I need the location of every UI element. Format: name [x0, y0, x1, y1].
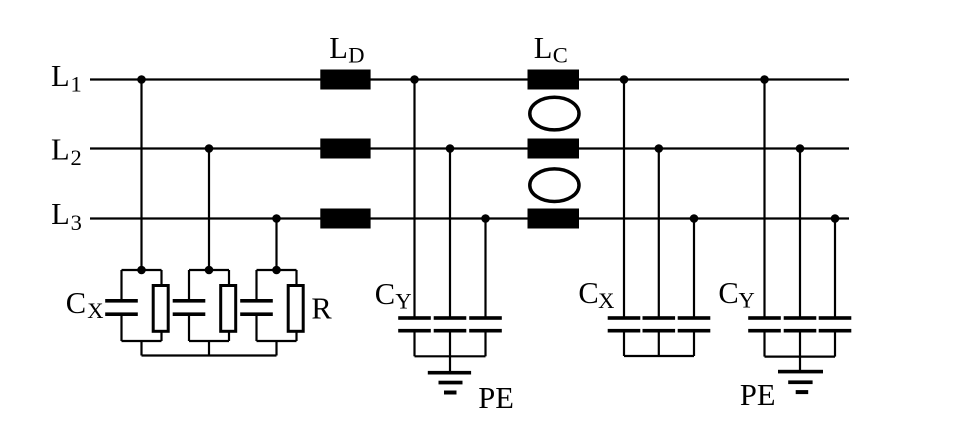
junction dot L1/CY1	[410, 75, 419, 84]
ground PE (right)	[778, 357, 823, 395]
svg-text:2: 2	[71, 145, 82, 170]
resistor R (phase L1 cell)	[153, 286, 168, 332]
svg-text:1: 1	[71, 71, 82, 96]
svg-text:X: X	[598, 288, 614, 313]
wire from L2 down to CX1 cell	[208, 149, 210, 271]
svg-text:Y: Y	[395, 289, 411, 314]
label CY (right block)	[718, 276, 754, 313]
junction dot L1/CX2	[620, 75, 629, 84]
junction dot L3/CY1	[481, 214, 490, 223]
capacitor CX1a with parallel resistor cell (phase L1)	[105, 270, 161, 356]
ground PE (middle)	[428, 356, 471, 394]
junction dot L2/CX2	[655, 144, 664, 153]
svg-text:PE: PE	[478, 381, 514, 415]
capacitor CY2 phase L3	[819, 316, 852, 356]
inductor LC winding on L2	[528, 139, 580, 159]
resistor R (phase L2 cell)	[221, 286, 236, 332]
junction dot CX1 cell top L3	[272, 266, 281, 275]
wire from L1 down to CY1	[413, 80, 415, 317]
wire from L3 down to CX1 cell	[275, 219, 277, 271]
junction dot L2/CX1	[205, 144, 214, 153]
svg-text:R: R	[311, 292, 332, 326]
inductor LC winding on L1	[528, 70, 580, 90]
junction dot L2/CY1	[446, 144, 455, 153]
wire star-point bus of CX1 block	[142, 354, 277, 356]
inductor LD winding on L3	[320, 209, 370, 229]
svg-text:PE: PE	[740, 378, 776, 412]
svg-text:C: C	[553, 43, 568, 68]
wire from L3 down to CX2	[693, 219, 695, 317]
wire from L3 down to CY1	[484, 219, 486, 317]
svg-text:Y: Y	[739, 287, 755, 312]
svg-text:X: X	[87, 298, 103, 323]
wire from L2 down to CX2	[658, 149, 660, 317]
label LD	[329, 31, 364, 68]
svg-text:D: D	[348, 42, 364, 67]
capacitor CX2 phase L2	[643, 316, 676, 356]
svg-text:L: L	[51, 133, 70, 167]
label CY (middle block)	[375, 277, 412, 314]
wire phase line L3	[90, 217, 849, 219]
capacitor CX1b with parallel resistor cell (phase L2)	[173, 270, 229, 356]
resistor R (phase L3 cell)	[288, 286, 303, 332]
capacitor CX2 phase L1	[608, 316, 641, 356]
inductor LC winding on L3	[528, 209, 580, 229]
wire from L2 down to CY2	[799, 149, 801, 317]
svg-text:C: C	[578, 276, 598, 310]
junction dot CX1 cell top L1	[137, 266, 146, 275]
capacitor CX1c with parallel resistor cell (phase L3)	[240, 270, 296, 356]
svg-text:L: L	[534, 31, 553, 65]
junction dot L1/CY2	[760, 75, 769, 84]
wire from L1 down to CX2	[623, 80, 625, 317]
capacitor CY1 phase L2	[434, 316, 467, 356]
wire from L2 down to CY1	[449, 149, 451, 317]
wire from L1 down to CY2	[763, 80, 765, 317]
wire from L3 down to CY2	[834, 219, 836, 317]
capacitor CY1 phase L3	[469, 316, 502, 356]
svg-text:L: L	[329, 31, 348, 65]
wire star-point bus of CX2 block	[624, 355, 694, 357]
svg-text:L: L	[51, 59, 70, 93]
label L1	[51, 59, 82, 97]
capacitor CX2 phase L3	[678, 316, 711, 356]
inductor LD winding on L1	[320, 70, 370, 90]
label CX (left block)	[66, 286, 104, 323]
svg-text:C: C	[718, 276, 738, 310]
label CX (right block)	[578, 276, 614, 313]
LC core coupling ellipse upper	[530, 97, 579, 130]
wire phase line L1	[90, 78, 849, 80]
capacitor CY1 phase L1	[398, 316, 431, 356]
label L3	[51, 197, 82, 235]
junction dot L3/CX1	[272, 214, 281, 223]
junction dot L2/CY2	[796, 144, 805, 153]
junction dot L3/CX2	[690, 214, 699, 223]
svg-text:L: L	[51, 197, 70, 231]
wire phase line L2	[90, 147, 849, 149]
capacitor CY2 phase L1	[748, 316, 781, 356]
junction dot CX1 cell top L2	[205, 266, 214, 275]
wire star-point bus of CY2 block	[765, 356, 836, 358]
label LC	[534, 31, 568, 68]
inductor LD winding on L2	[320, 139, 370, 159]
wire star-point bus of CY1 block	[415, 355, 486, 357]
wire from L1 down to CX1 cell	[140, 80, 142, 271]
junction dot L1/CX1	[137, 75, 146, 84]
LC core coupling ellipse lower	[530, 169, 579, 202]
svg-text:3: 3	[71, 210, 82, 235]
label L2	[51, 133, 82, 171]
svg-text:C: C	[375, 277, 395, 311]
junction dot L3/CY2	[831, 214, 840, 223]
svg-text:C: C	[66, 286, 86, 320]
capacitor CY2 phase L2	[784, 316, 817, 356]
